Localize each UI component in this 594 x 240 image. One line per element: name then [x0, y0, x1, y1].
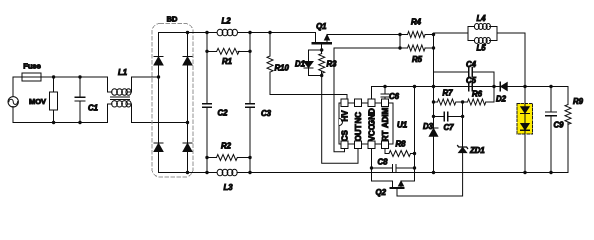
resistor R3: [319, 50, 325, 76]
svg-text:C3: C3: [261, 109, 272, 118]
svg-text:R9: R9: [573, 97, 584, 106]
diode BD-D4 (right bottom): [183, 143, 192, 152]
transistor Q1: [313, 33, 332, 51]
capacitor C5 (series in mid rail): [469, 82, 473, 91]
svg-text:R2: R2: [221, 142, 232, 151]
wire bottom AC rail to bridge: [131, 122, 187, 124]
svg-text:HV: HV: [340, 110, 349, 122]
capacitor C7: [434, 102, 463, 121]
wire Q2 drain column: [401, 87, 415, 182]
resistor R5: [400, 35, 434, 52]
svg-text:ADIM: ADIM: [381, 107, 390, 128]
wire bottom rail L3 to right: [237, 172, 568, 174]
wire top DC rail L2 to Q1: [238, 32, 316, 34]
resistor R8: [385, 149, 415, 157]
capacitor C1: [75, 77, 85, 123]
resistor R6: [463, 87, 494, 106]
inductor L5: [468, 27, 497, 44]
resistor R1: [207, 33, 250, 55]
svg-text:U1: U1: [397, 121, 408, 130]
svg-text:L4: L4: [476, 14, 486, 23]
svg-text:GND: GND: [367, 108, 376, 126]
LED1: [521, 87, 529, 114]
wire top AC rail to bridge: [131, 76, 158, 78]
LED module highlight box: [517, 104, 533, 135]
inductor L2: [217, 29, 237, 36]
svg-text:C7: C7: [444, 123, 455, 132]
IC U1 body: [339, 103, 393, 144]
svg-text:R10: R10: [275, 64, 290, 73]
wire bridge right leg: [187, 33, 189, 173]
diode BD-D3 (left bottom): [154, 143, 163, 152]
wire bottom AC rail: [13, 122, 107, 124]
capacitor C4: [434, 68, 495, 87]
svg-text:L3: L3: [223, 183, 233, 192]
svg-text:C1: C1: [88, 104, 98, 113]
svg-text:L5: L5: [476, 44, 486, 53]
wire bridge top bar: [159, 32, 188, 34]
wire OUT pin path (D1/R3 bottom to OUT): [322, 76, 358, 164]
resistor R4: [400, 32, 434, 38]
LED2: [521, 114, 529, 173]
wire top rail R4 to L4: [434, 32, 469, 34]
resistor R7: [434, 87, 463, 106]
svg-text:C4: C4: [466, 60, 477, 69]
wire top DC rail BD to L2: [188, 32, 217, 34]
diode D2: [500, 82, 507, 90]
svg-text:D1: D1: [295, 60, 305, 69]
svg-text:R6: R6: [472, 90, 483, 99]
svg-text:R7: R7: [443, 89, 454, 98]
diode BD-D2 (right top): [183, 57, 192, 66]
capacitor C2: [203, 51, 212, 157]
svg-text:R8: R8: [396, 140, 407, 149]
wire bridge left leg: [158, 33, 160, 173]
svg-text:Fuse: Fuse: [23, 62, 41, 71]
zener diode ZD1: [458, 116, 468, 152]
svg-text:C9: C9: [554, 121, 565, 130]
bridge rectifier BD dashed box: [152, 24, 193, 178]
svg-text:R4: R4: [411, 18, 422, 27]
wire Q2 gate to ZD1 column: [397, 153, 463, 196]
svg-text:C6: C6: [389, 92, 400, 101]
wire bridge bottom bar: [159, 172, 188, 174]
svg-text:Q1: Q1: [316, 22, 326, 31]
svg-text:R3: R3: [327, 60, 338, 69]
transistor Q2: [391, 181, 404, 196]
wire Q1 drain to R4/R5: [327, 34, 400, 36]
diode BD-D1 (left top): [154, 57, 163, 66]
capacitor C3: [246, 51, 255, 157]
svg-text:C8: C8: [378, 158, 389, 167]
svg-text:C2: C2: [218, 109, 229, 118]
diode D3: [429, 116, 437, 172]
svg-text:OUT: OUT: [354, 124, 363, 141]
svg-text:BD: BD: [167, 15, 178, 24]
wire Q2 source to VCC column: [372, 149, 393, 182]
svg-text:NC: NC: [354, 112, 363, 124]
capacitor C9: [546, 87, 556, 173]
svg-text:R5: R5: [412, 55, 423, 64]
diode D1: [304, 50, 322, 76]
wire L4/L5 to LED column: [497, 33, 525, 87]
resistor R10: [267, 33, 273, 95]
svg-text:L2: L2: [221, 17, 231, 26]
resistor R9: [565, 87, 571, 173]
svg-text:Q2: Q2: [376, 188, 387, 197]
AC source V1: [8, 77, 18, 123]
wire top AC rail: [54, 76, 108, 78]
svg-text:C5: C5: [466, 76, 477, 85]
wire R10 to HV pin: [270, 95, 347, 100]
svg-text:RT: RT: [381, 131, 390, 142]
MOV: [50, 77, 58, 123]
svg-text:L1: L1: [118, 68, 127, 77]
wire CS pin path (R5 node to CS): [334, 48, 400, 152]
fuse: [13, 73, 54, 81]
svg-text:VCC: VCC: [367, 124, 376, 141]
U1 pin boxes bottom: [341, 141, 389, 149]
resistor R2: [207, 155, 250, 173]
wire bottom rail BD to L3: [188, 172, 218, 174]
wire VCC rail (mid): [372, 87, 569, 100]
svg-text:CS: CS: [340, 130, 349, 142]
U1 pin boxes top: [341, 99, 389, 107]
capacitor C8: [372, 149, 415, 172]
inductor L4: [468, 24, 497, 41]
inductor L1 common-mode choke: [107, 77, 131, 123]
inductor L3: [217, 169, 237, 176]
svg-text:D3: D3: [423, 122, 434, 131]
svg-text:MOV: MOV: [29, 97, 46, 106]
capacitor C6: [381, 87, 388, 100]
wire R4R5 node column: [433, 48, 435, 116]
svg-text:R1: R1: [222, 57, 232, 66]
svg-text:ZD1: ZD1: [469, 146, 485, 155]
svg-text:D2: D2: [496, 95, 507, 104]
